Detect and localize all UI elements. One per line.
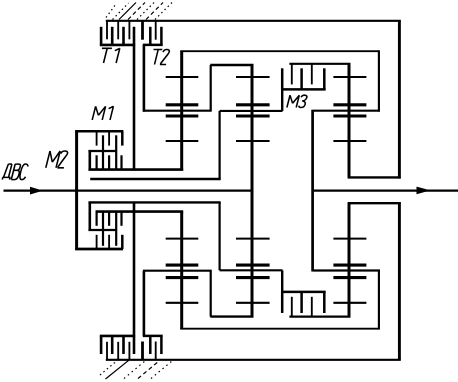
output drum [348,21,401,360]
row 3 gear bar lower 1 [333,276,366,279]
input shaft [4,190,253,192]
brake T1 frame teeth [107,21,129,40]
clutch M3 hanging teeth [292,64,312,85]
row 1 gear bar upper 2 [166,114,199,117]
row 2 gear bar upper 1 [236,103,270,106]
row 3 shaft lower [348,203,351,316]
clutch M1 mid bar [88,151,116,170]
row 1 carrier bracket lower [143,271,254,317]
row 2 ring bracket lower [88,202,282,270]
row 1 shaft lower [180,212,183,329]
clutch M1 bottom bar [88,168,183,171]
row 3 gear bar upper 1 [333,103,366,106]
row 3 gear dash mid lower [333,238,366,240]
row 1 gear bar upper 1 [166,103,199,106]
brake T1 lower frame teeth [107,342,129,360]
clutch M2 inner bar [96,210,184,213]
clutch M3 lower cup [281,292,326,313]
row 1 gear dash mid upper [166,140,199,142]
row 3 gear dash lower [333,302,366,304]
output shaft [313,190,458,192]
brake T2 stem lower [143,271,146,336]
clutch M3 upper bar [289,63,350,65]
clutch M3 lower bar [289,316,350,318]
fixed frame bottom line [106,359,401,361]
row 3 shaft upper [348,64,351,178]
clutch M2 posts [103,212,116,246]
output arrow [417,187,431,195]
planet row 1 shaft upper [180,51,183,170]
clutch M1 drum bar [75,130,123,133]
label T2 [154,50,170,65]
brake T2 cup [143,27,163,45]
row 2 ring bracket upper [90,111,282,179]
clutch M1 rising teeth [97,155,122,169]
brake T1 stem [133,27,136,171]
clutch M2 drum bar [75,248,123,251]
row 2 gear dash upper [236,76,270,78]
row 2 gear bar lower 2 [236,264,270,267]
row 3 gear dash mid upper [333,140,366,142]
clutch M2 wall [89,202,92,230]
row 3 gear bar upper 2 [333,114,366,117]
row 1 gear bar lower 1 [166,276,199,279]
clutch M3 wall [281,89,283,111]
clutch M1 posts [103,135,116,169]
label DVS [2,164,28,180]
label T1 [102,48,120,63]
label M1 [92,106,113,120]
row 1 carrier bracket upper [143,65,254,111]
row 3 gear dash upper [333,76,366,78]
row 2 gear dash mid upper [236,140,270,142]
hatching bottom [100,361,172,380]
brake T1 lower cup [100,336,135,354]
brake T1 lower stem [133,204,136,355]
clutch M3 lower rising teeth [292,297,312,317]
row 1 gear dash mid lower [166,238,199,240]
brake T2 stem [143,45,146,112]
hatching top (fixed support) [106,3,172,20]
ring drum (inner frame) [180,50,380,329]
row 2 gear dash mid lower [236,238,270,240]
row 1 gear dash upper [166,76,199,78]
row 2 shaft [251,64,254,317]
row 2 gear bar upper 2 [236,114,270,117]
clutch M3 cup [281,68,326,89]
row 2 gear bar lower 1 [236,276,270,279]
clutch M3 lower wall [281,270,283,292]
row 2 gear dash lower [236,302,270,304]
fixed frame top line [106,20,401,22]
brake T2 lower cup [143,336,163,354]
row 3 gear bar lower 2 [333,264,366,267]
brake T2 lower frame teeth [143,342,156,360]
clutch M2 mid bar [88,229,116,231]
clutch M2 hanging teeth [97,212,122,226]
label M2 [46,151,68,168]
brake T2 frame teeth [143,21,156,40]
label M3 [287,95,307,107]
clutch M2 drum teeth [97,235,123,249]
clutch M1 drum teeth [97,131,123,145]
brake T1 cup [100,27,135,45]
input drum [75,131,78,249]
row 1 gear bar lower 2 [166,264,199,267]
row 1 gear dash lower [166,302,199,304]
input arrow [30,187,43,195]
